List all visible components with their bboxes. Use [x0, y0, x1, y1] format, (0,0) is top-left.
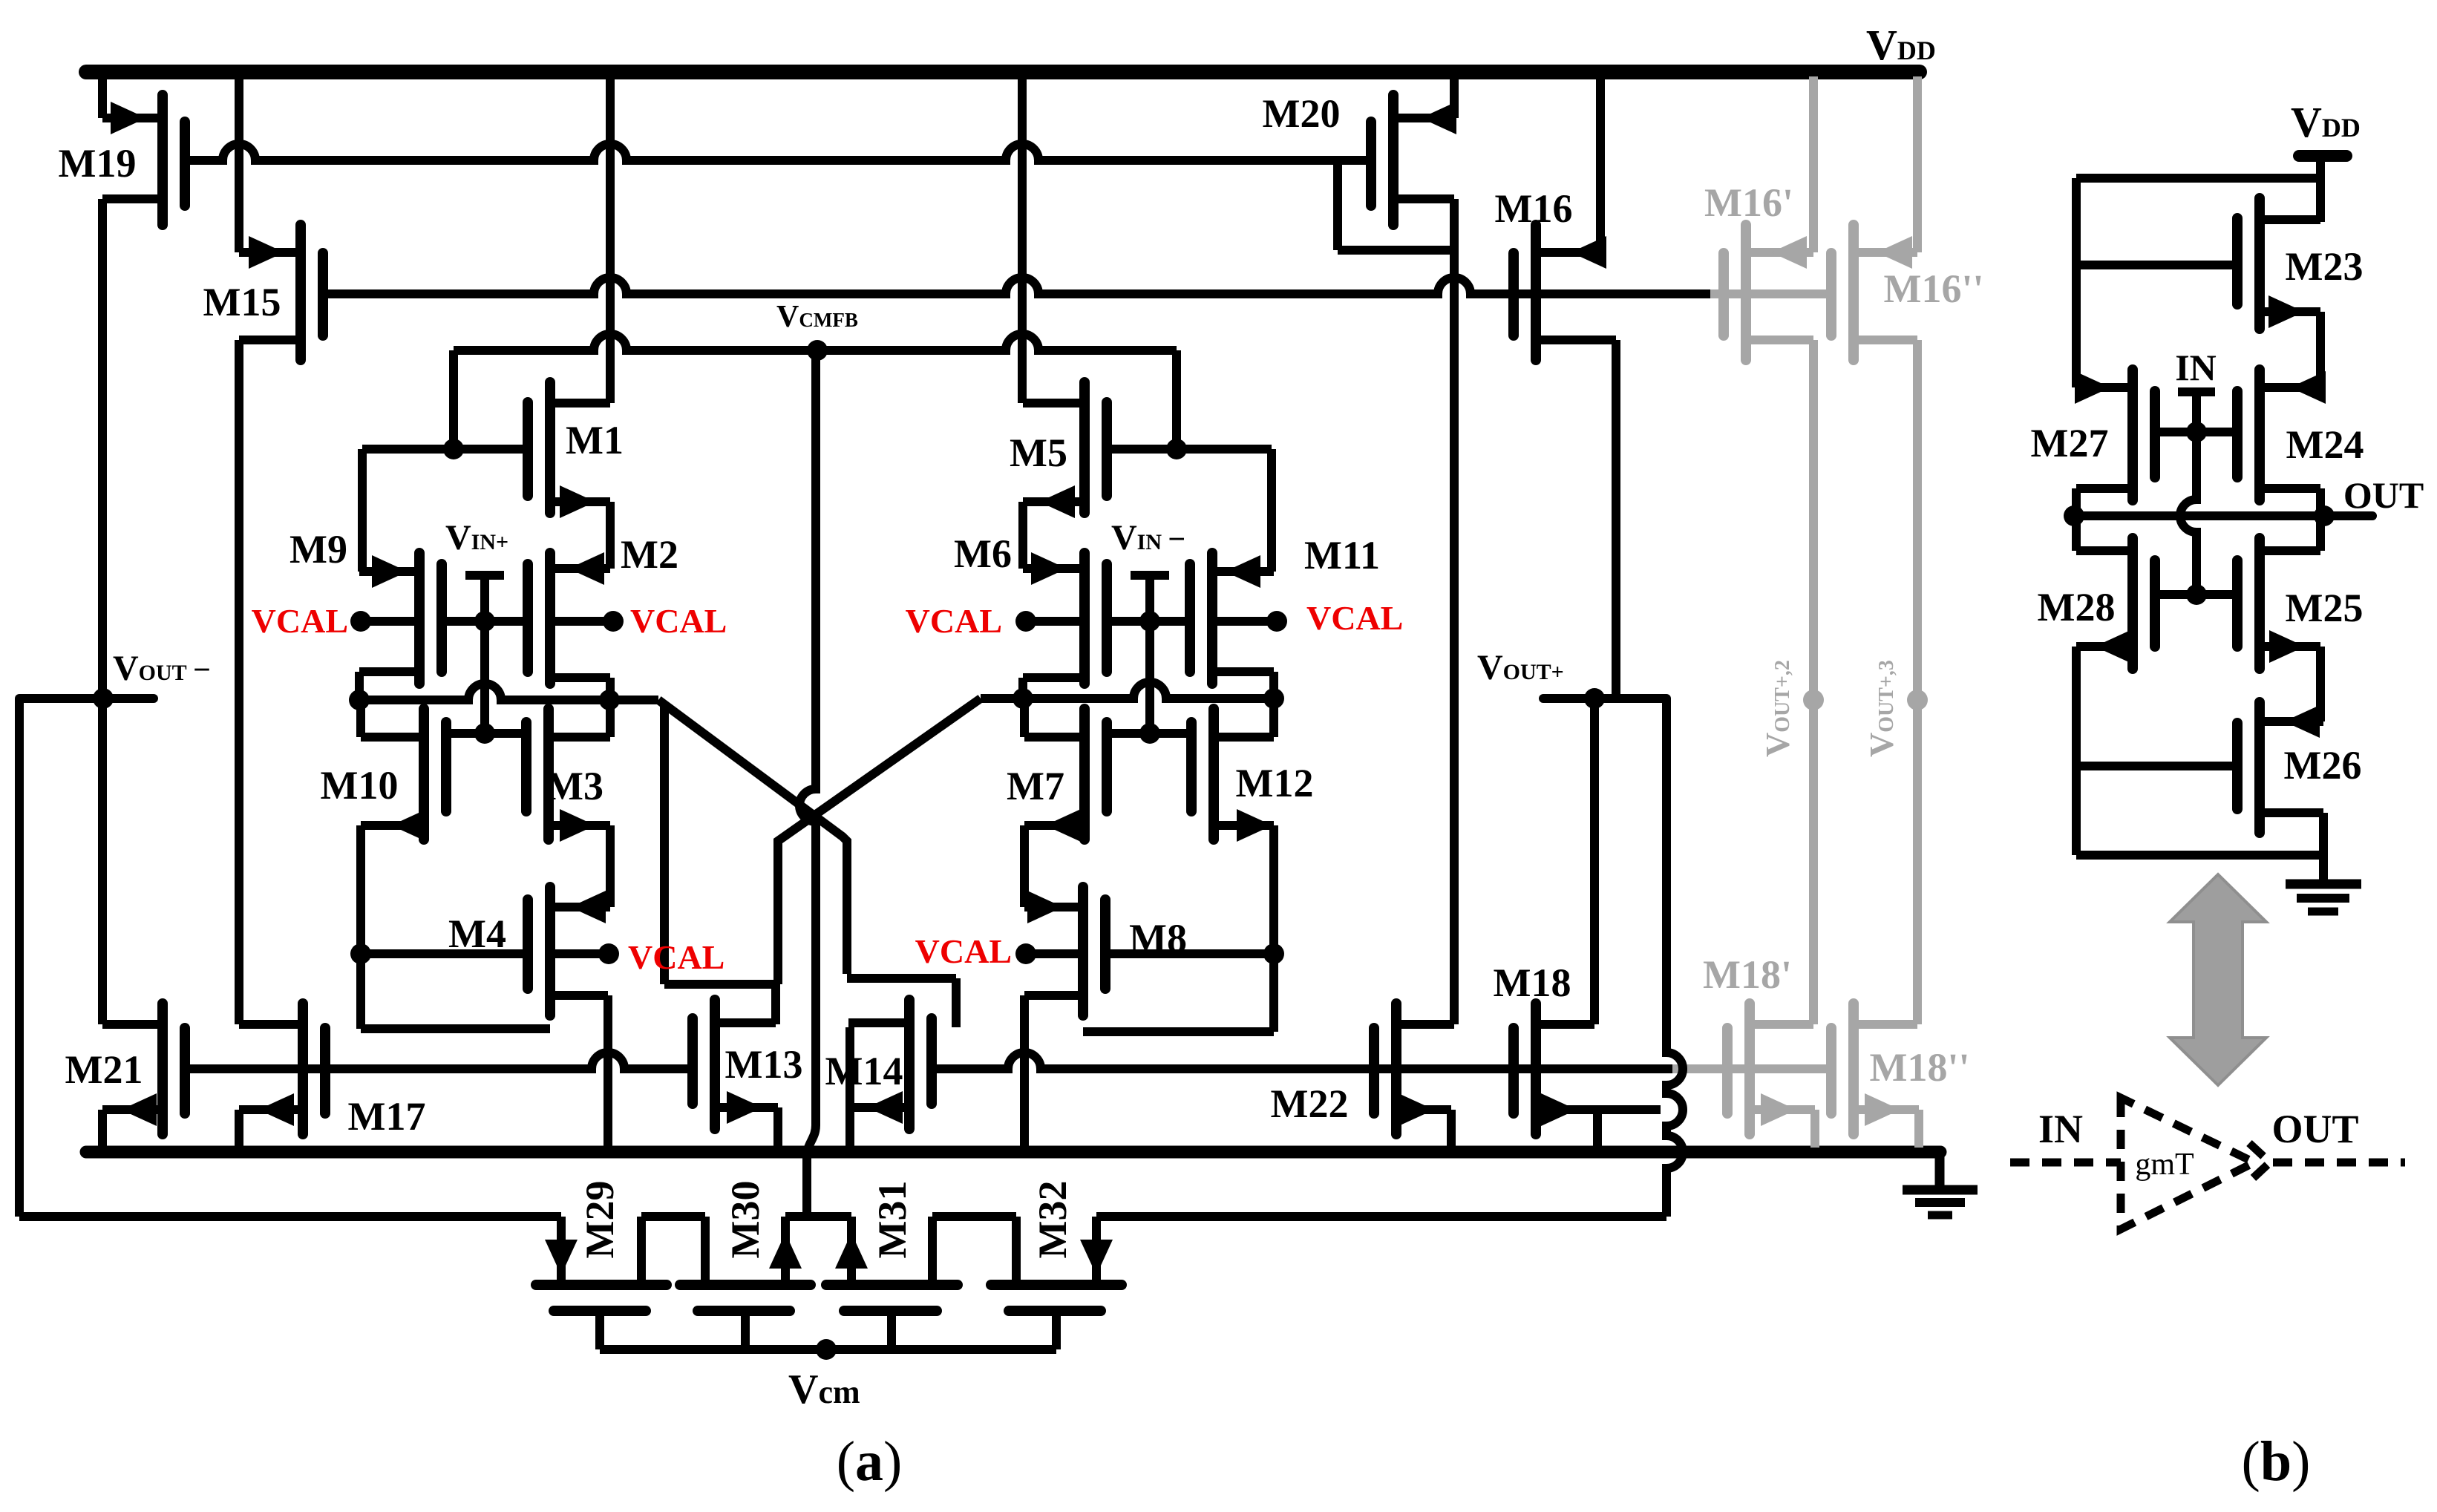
- wire pbias2 M15 gate to M16 gate: [324, 278, 1710, 294]
- M11 source lead: [1212, 667, 1274, 676]
- M24 drain lead: [2260, 383, 2320, 392]
- M18 source lead: [1536, 1105, 1661, 1114]
- svg-text:M5: M5: [1010, 431, 1067, 475]
- transistor M22: [1391, 1004, 1401, 1134]
- M4 drain lead: [550, 903, 610, 912]
- M18p drain lead (gray): [1750, 1020, 1813, 1029]
- M12 drain lead: [1214, 733, 1274, 742]
- transistor M18: [1531, 1004, 1541, 1134]
- transistor M17: [298, 1004, 308, 1134]
- transistor M13: [710, 1000, 720, 1129]
- svg-text:M11: M11: [1304, 533, 1380, 577]
- transistor M18p: [1744, 1004, 1755, 1134]
- node VCMFB line: [454, 334, 1177, 350]
- M21 source lead: [102, 1105, 163, 1114]
- svg-text:M14: M14: [825, 1049, 903, 1093]
- wire VDD to M1 drain column: [606, 76, 615, 403]
- svg-text:M4: M4: [448, 912, 506, 956]
- M11 drain lead: [1212, 567, 1274, 576]
- transistor M27: [2127, 370, 2138, 500]
- wire Vcm gate bus: [595, 1311, 604, 1349]
- transistor M28: [2127, 538, 2138, 669]
- M29 leads: [557, 1217, 566, 1280]
- M32 leads: [1012, 1217, 1021, 1280]
- M9 bulk stub VCAL: [361, 617, 419, 626]
- M10 source lead: [361, 821, 424, 830]
- node Vout+3 dot (gray): [1907, 690, 1928, 710]
- VDD terminal (b): [2299, 150, 2346, 162]
- wire VDD to M15 drain: [235, 76, 243, 252]
- transistor M9: [414, 553, 425, 684]
- wire M29-M30 join: [641, 1212, 705, 1221]
- svg-text:M21: M21: [65, 1047, 143, 1092]
- VSS rail: [86, 1146, 1940, 1159]
- M23 gate tap: [2076, 261, 2239, 269]
- M26 gate tap: [2076, 762, 2239, 770]
- wire nbias right M14 M22 M18 gates: [932, 1053, 1672, 1069]
- VDD rail: [86, 65, 1920, 79]
- wire M19 source to Vout- column: [98, 199, 107, 1024]
- transistor M15: [295, 225, 306, 360]
- M5 source lead: [1023, 497, 1085, 506]
- wire M27-M24 gate line: [2153, 428, 2239, 436]
- wire VDD to M5 drain column: [1018, 76, 1027, 403]
- wire to M14 area: [847, 974, 956, 983]
- svg-text:M2: M2: [621, 532, 678, 577]
- svg-text:M1: M1: [566, 418, 624, 462]
- M6 drain lead: [1023, 564, 1085, 573]
- M16p drain lead (gray): [1746, 336, 1813, 344]
- svg-text:M3: M3: [546, 764, 603, 808]
- M13 drain lead: [715, 1018, 776, 1027]
- wire M5 gate line: [1107, 445, 1272, 454]
- wire pbias1 M19 gate to M20 gate: [185, 144, 1371, 160]
- svg-text:M25: M25: [2286, 586, 2364, 630]
- transistor M18pp: [1848, 1004, 1859, 1134]
- M4 bulk stub VCAL: [550, 949, 609, 958]
- svg-text:M7: M7: [1007, 764, 1064, 808]
- M14 source lead: [850, 1103, 909, 1112]
- M26 source lead: [2260, 808, 2323, 817]
- svg-text:M16: M16: [1495, 186, 1573, 231]
- M31 arrow: [835, 1233, 868, 1269]
- M5 drain lead: [1023, 399, 1085, 408]
- svg-text:(b): (b): [2242, 1430, 2311, 1493]
- wire VDD to M20 source: [1450, 76, 1459, 118]
- transistor M19: [157, 95, 168, 225]
- svg-text:gmT: gmT: [2135, 1148, 2194, 1182]
- ground (a): [1935, 1152, 1945, 1188]
- M24 source lead: [2260, 484, 2320, 493]
- node VIN- input: [1131, 571, 1169, 580]
- svg-text:M18': M18': [1703, 952, 1792, 997]
- svg-text:IN: IN: [2038, 1107, 2083, 1151]
- M31 leads: [847, 1217, 856, 1280]
- svg-text:M20: M20: [1263, 91, 1341, 136]
- svg-text:M26: M26: [2284, 743, 2362, 788]
- M20 drain lead: [1393, 194, 1454, 203]
- svg-text:(a): (a): [837, 1430, 903, 1493]
- node VOUT+ terminal: [1543, 694, 1666, 703]
- M16 drain lead: [1536, 336, 1616, 344]
- wire M10-M3 gate line: [444, 729, 528, 738]
- M8 gate line: [1109, 949, 1274, 958]
- wire VDD to M16pp source (gray): [1913, 76, 1922, 252]
- M9 drain lead: [359, 567, 419, 576]
- M22 source lead: [1396, 1105, 1451, 1114]
- svg-text:IN: IN: [2175, 347, 2217, 388]
- svg-text:VCAL: VCAL: [906, 602, 1002, 640]
- node IN input (b): [2178, 387, 2215, 396]
- M1 drain lead: [550, 399, 610, 408]
- M25 source lead: [2260, 642, 2320, 651]
- M17 drain lead: [239, 1020, 303, 1029]
- svg-text:M28: M28: [2038, 585, 2116, 629]
- M8 bulk stub VCAL: [1026, 949, 1083, 958]
- transistor M1: [545, 382, 555, 513]
- wire cross diagonal left node: [658, 700, 847, 974]
- transistor M7: [1079, 709, 1090, 840]
- transistor M26: [2254, 702, 2265, 833]
- transistor M6: [1079, 553, 1090, 684]
- node VIN+ input: [465, 571, 504, 580]
- M6 bulk stub VCAL: [1026, 617, 1085, 626]
- svg-text:M22: M22: [1271, 1081, 1349, 1126]
- wire M30-M31 join (tail tap): [785, 1212, 851, 1221]
- dashed IN line: [2010, 1159, 2121, 1167]
- svg-text:M12: M12: [1236, 761, 1314, 805]
- svg-text:Vcm: Vcm: [788, 1367, 860, 1413]
- transistor M24: [2254, 370, 2265, 500]
- svg-text:M16': M16': [1704, 180, 1793, 225]
- svg-text:M8: M8: [1129, 916, 1187, 960]
- transistor M20: [1388, 95, 1399, 225]
- M12 source lead: [1214, 821, 1274, 830]
- wire M15 drain to M17 drain / Vout-: [235, 340, 243, 1024]
- svg-text:M9: M9: [290, 527, 347, 572]
- svg-text:M10: M10: [321, 763, 399, 808]
- M16pp drain lead (gray): [1854, 336, 1917, 344]
- M23 source lead: [2260, 215, 2320, 224]
- svg-text:VCAL: VCAL: [915, 932, 1012, 970]
- wire M31-M32 join: [932, 1212, 1016, 1221]
- wire VCMFB to M5 gate: [1172, 350, 1181, 449]
- M16pp source lead (gray): [1854, 248, 1917, 257]
- M8 source lead: [1024, 991, 1083, 1000]
- wire cross diagonal right node: [778, 698, 981, 984]
- M32 arrow: [1080, 1240, 1113, 1275]
- transistor M31 (rotated): [826, 1280, 958, 1290]
- dashed OUT line: [2273, 1159, 2405, 1167]
- svg-text:OUT: OUT: [2271, 1107, 2358, 1151]
- M7 drain lead: [1024, 733, 1085, 742]
- transistor M12: [1208, 709, 1219, 840]
- wire VCMFB to M1 gate: [449, 350, 458, 449]
- M15 drain lead: [239, 336, 301, 344]
- svg-text:M13: M13: [725, 1042, 803, 1087]
- node OUT line (b): [2074, 511, 2372, 520]
- svg-text:VCAL: VCAL: [1306, 599, 1403, 637]
- gmT dashed triangle: [2121, 1098, 2254, 1229]
- wire nbias gray to M18p M18pp gates: [1672, 1064, 1831, 1073]
- transistor M3: [543, 709, 554, 840]
- M25 drain lead: [2260, 546, 2320, 555]
- wire nbias left M21 M17 M13 gates: [184, 1053, 693, 1069]
- M4 gate line: [361, 949, 527, 958]
- M27 drain lead: [2076, 383, 2133, 392]
- M10 drain lead: [361, 733, 424, 742]
- transistor M11: [1207, 553, 1217, 684]
- M23 drain lead: [2260, 307, 2320, 316]
- M14 drain lead: [848, 1018, 909, 1027]
- node right source line (M6,M11 sources): [981, 682, 1274, 698]
- transistor M25: [2254, 538, 2265, 669]
- svg-text:VCAL: VCAL: [628, 938, 724, 976]
- transistor M2: [545, 553, 555, 684]
- wire to M13 drain: [664, 980, 778, 989]
- wire M9-M2 gate line: [444, 617, 528, 626]
- node Vout+2 dot (gray): [1803, 690, 1824, 710]
- M3 source lead: [549, 821, 610, 830]
- M19 drain lead: [102, 114, 163, 122]
- gray double arrow: [2170, 874, 2266, 1085]
- transistor M30 (rotated): [680, 1280, 811, 1290]
- M4 source lead: [550, 991, 608, 1000]
- M18pp source lead (gray): [1854, 1105, 1919, 1114]
- M17 source lead: [239, 1105, 303, 1114]
- M6 source lead: [1023, 673, 1085, 682]
- wire VOUT- feedback down-left: [15, 698, 24, 1217]
- transistor M14: [904, 1000, 915, 1129]
- transistor M10: [419, 709, 429, 840]
- M1 source lead: [550, 497, 610, 506]
- transistor M29 (rotated): [536, 1280, 667, 1290]
- svg-text:OUT: OUT: [2343, 474, 2424, 516]
- M18pp drain lead (gray): [1854, 1020, 1917, 1029]
- M30 arrow: [769, 1233, 802, 1269]
- M30 leads: [701, 1217, 710, 1280]
- svg-text:M16'': M16'': [1884, 266, 1984, 311]
- svg-text:M15: M15: [203, 280, 281, 324]
- M26 drain lead: [2260, 717, 2323, 726]
- M18 drain lead: [1536, 1020, 1594, 1029]
- dashed arrowhead: [2249, 1143, 2270, 1182]
- wire b left rail top: [2076, 174, 2320, 183]
- wire M1 gate line: [362, 445, 528, 454]
- M20 source lead: [1393, 114, 1454, 122]
- wire M20 diode connection: [1333, 160, 1342, 250]
- M19 source lead: [102, 194, 163, 203]
- transistor M16pp: [1848, 225, 1859, 360]
- transistor M5: [1079, 382, 1090, 513]
- wire M12 source to M8: [1083, 1027, 1274, 1036]
- svg-text:M18'': M18'': [1870, 1045, 1970, 1090]
- svg-text:M6: M6: [954, 531, 1012, 576]
- wire M10 source to M4: [361, 1024, 550, 1033]
- wire VCMFB center tap down: [799, 350, 816, 1125]
- wire M7-M12 gate line: [1107, 729, 1189, 738]
- M8 drain lead: [1024, 903, 1083, 912]
- wire pbias2 gray extension to M16p M16pp gates: [1710, 289, 1831, 298]
- svg-text:VCAL: VCAL: [630, 602, 727, 640]
- M18p source lead (gray): [1750, 1105, 1815, 1114]
- M7 source lead: [1024, 821, 1085, 830]
- M2 source lead: [550, 673, 610, 682]
- wire b bottom: [2076, 851, 2323, 860]
- M16p source lead (gray): [1746, 248, 1813, 257]
- M15 source lead: [239, 248, 301, 257]
- M22 drain lead: [1396, 1020, 1454, 1029]
- svg-text:M32: M32: [1030, 1181, 1075, 1259]
- svg-text:M23: M23: [2286, 244, 2364, 289]
- svg-text:M29: M29: [578, 1181, 622, 1259]
- svg-text:M30: M30: [723, 1181, 768, 1259]
- M21 drain lead: [102, 1020, 163, 1029]
- transistor M32 (rotated): [991, 1280, 1122, 1290]
- M28 source lead: [2076, 642, 2133, 651]
- node VOUT- terminal: [19, 694, 154, 703]
- svg-text:M27: M27: [2031, 421, 2109, 465]
- M29 arrow: [545, 1240, 578, 1275]
- M27 source lead: [2076, 484, 2133, 493]
- M16 source lead: [1536, 248, 1600, 257]
- transistor M23: [2254, 198, 2265, 329]
- M3 drain lead: [549, 733, 610, 742]
- wire VDD to M19 drain: [98, 76, 107, 118]
- transistor M8: [1078, 887, 1088, 1015]
- M2 bulk stub VCAL: [550, 617, 613, 626]
- M13 source lead: [715, 1103, 778, 1112]
- M11 bulk stub VCAL: [1212, 617, 1277, 626]
- wire VOUT+ feedback down-right: [1666, 698, 1683, 1217]
- transistor M4: [545, 887, 555, 1015]
- svg-text:VCAL: VCAL: [252, 602, 348, 640]
- transistor M21: [157, 1004, 168, 1134]
- svg-text:M31: M31: [870, 1181, 915, 1259]
- transistor M16p: [1741, 225, 1751, 360]
- svg-text:M18: M18: [1494, 960, 1571, 1005]
- svg-text:M19: M19: [59, 141, 137, 186]
- wire VDD to M16p source (gray): [1809, 76, 1818, 252]
- ground (b): [2286, 880, 2361, 889]
- wire IN to lower gates: [2180, 432, 2196, 595]
- svg-text:M17: M17: [348, 1094, 426, 1139]
- wire VDD to M16 source: [1596, 76, 1605, 252]
- wire M6-M11 gate line: [1107, 617, 1189, 626]
- M2 drain lead: [550, 564, 610, 573]
- svg-text:M24: M24: [2286, 422, 2364, 467]
- transistor M16: [1531, 225, 1541, 360]
- wire M28-M25 gate line: [2153, 590, 2239, 599]
- M9 source lead: [359, 667, 419, 676]
- M28 drain lead: [2076, 546, 2133, 555]
- node left source line (M9,M2 sources): [359, 684, 658, 700]
